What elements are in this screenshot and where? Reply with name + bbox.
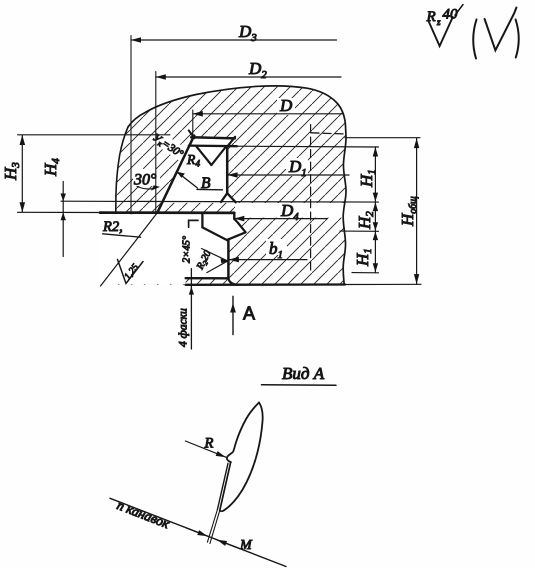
V notch left flank — [196, 146, 211, 165]
label Uk=30 — [150, 131, 186, 161]
corner bevel tick above face — [189, 130, 195, 138]
dimension H4 — [61, 182, 66, 257]
bottom face — [186, 283, 345, 286]
label 4 faski — [190, 269, 192, 349]
body outline left break edge — [116, 127, 128, 213]
blade bottom — [220, 509, 224, 512]
svg-text:30°: 30° — [133, 172, 157, 189]
M dimension arrows — [186, 528, 208, 536]
pocket left vertical — [201, 213, 203, 227]
land top line — [61, 200, 379, 203]
hidden dashed vertical — [310, 125, 312, 270]
svg-text:Н4: Н4 — [41, 158, 62, 177]
svg-text:Н1: Н1 — [357, 169, 378, 188]
roughness Rz40 top right — [429, 17, 453, 46]
white cut: upper channel — [160, 135, 237, 203]
groove face top line — [191, 137, 235, 138]
hidden dashed horizontal — [311, 133, 346, 134]
slant extension construction line — [101, 213, 158, 286]
svg-text:Н3: Н3 — [1, 162, 22, 181]
bottom extension to H dim — [345, 283, 421, 285]
blade right edge — [223, 403, 262, 511]
dimension D2 — [156, 72, 341, 214]
label 2x45 — [182, 235, 193, 263]
white cut: lower pocket region — [98, 214, 246, 284]
step to undercut — [234, 219, 237, 223]
channel right wall — [226, 146, 229, 193]
land bottom line thick — [100, 211, 234, 214]
pocket floor — [186, 277, 229, 279]
svg-text:2×45°: 2×45° — [182, 235, 193, 263]
svg-text:D3: D3 — [238, 22, 257, 44]
undercut upper edge — [238, 223, 246, 233]
svg-text:z: z — [436, 17, 441, 27]
land bottom line thin left part — [18, 211, 101, 213]
step vertical — [233, 213, 235, 219]
svg-text:R: R — [426, 9, 436, 25]
dimension H1 upper chain — [340, 147, 379, 273]
white cut: D4 label strip — [235, 203, 346, 218]
blade left edge — [227, 403, 259, 463]
pocket right wall — [227, 239, 230, 278]
svg-text:4 фаски: 4 фаски — [178, 308, 190, 347]
dimension D — [193, 110, 343, 136]
pocket 45 deg chamfer — [202, 227, 228, 240]
roughness 1,25 on slant — [118, 260, 144, 284]
svg-text:R2,: R2, — [102, 219, 123, 235]
svg-text:D: D — [279, 96, 293, 115]
dimension H obshch — [414, 138, 419, 284]
other-surfaces mark ( v ) — [473, 20, 476, 59]
groove pitch baseline — [110, 498, 286, 566]
30 deg flank slant — [157, 136, 194, 213]
undercut lower edge — [229, 232, 246, 239]
svg-text:R: R — [186, 152, 196, 167]
V notch right flank — [211, 146, 226, 165]
n kanavok label — [115, 497, 172, 531]
label G corner bracket — [189, 220, 198, 227]
body hatched section — [116, 86, 346, 285]
dimension D4 — [234, 216, 327, 222]
section arrow A — [232, 296, 234, 334]
wall foot chamfer left — [221, 193, 227, 202]
dimension D3 — [131, 36, 337, 215]
strip inner line — [217, 463, 228, 509]
floor corner radius — [228, 278, 238, 284]
R leader in view A — [185, 441, 226, 457]
svg-text:Н1: Н1 — [353, 248, 374, 267]
groove band lower line (continues as H1 top extension) — [189, 144, 237, 147]
svg-text:Н2: Н2 — [355, 211, 376, 230]
label R2,0 with leader — [202, 249, 228, 261]
dimension D1 — [228, 172, 349, 178]
right mini chamfer of face — [228, 137, 235, 146]
svg-text:А: А — [243, 304, 255, 324]
top extension to H dim — [345, 137, 420, 139]
svg-text:R: R — [204, 436, 214, 452]
svg-text:М: М — [239, 538, 253, 553]
svg-text:n канавок: n канавок — [115, 497, 172, 531]
strip outer line — [220, 462, 231, 510]
svg-text:Вид А: Вид А — [282, 364, 325, 383]
label halos — [133, 98, 308, 255]
wall foot chamfer right — [227, 193, 236, 202]
dimension H3 — [18, 135, 171, 212]
dimension b1 — [229, 257, 307, 263]
body outline stroke — [128, 86, 346, 285]
svg-text:Нобщ: Нобщ — [398, 196, 419, 227]
strip extension lines — [210, 510, 220, 543]
svg-text:D2: D2 — [248, 59, 267, 81]
svg-text:4: 4 — [196, 159, 201, 169]
